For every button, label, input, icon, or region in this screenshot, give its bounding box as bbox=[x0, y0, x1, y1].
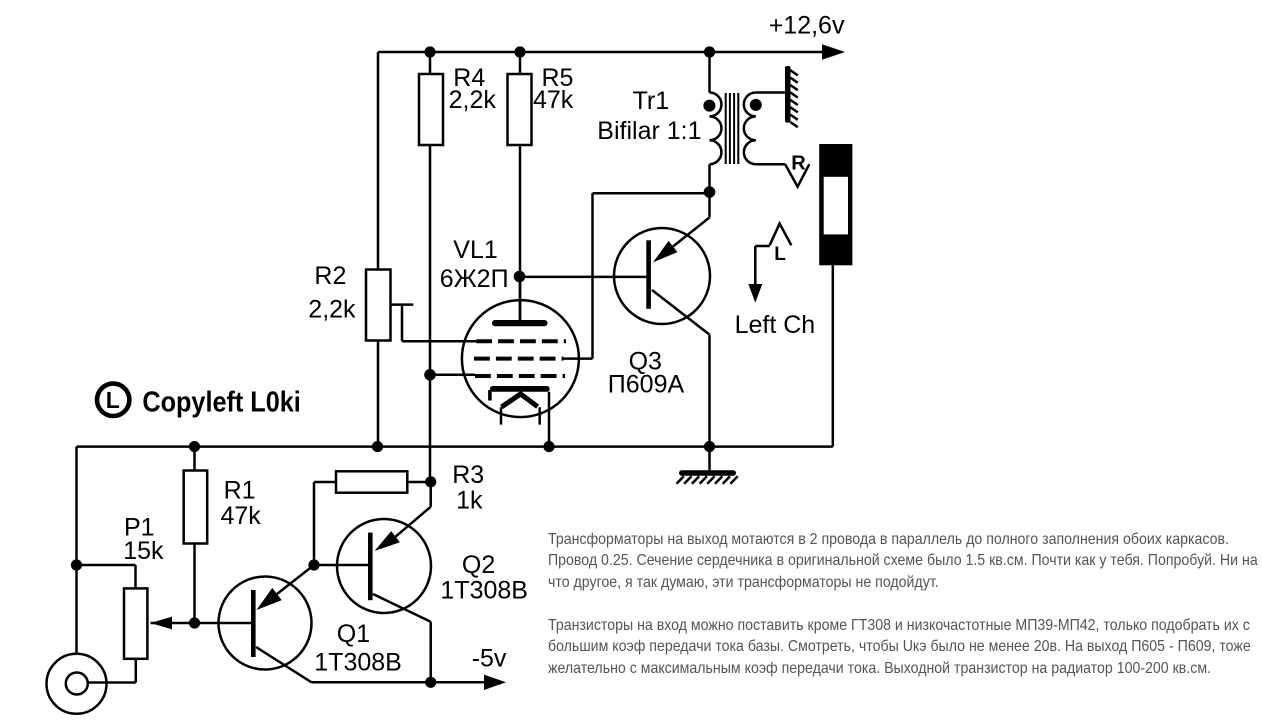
svg-text:Q1: Q1 bbox=[337, 620, 370, 648]
svg-text:L: L bbox=[106, 387, 120, 413]
svg-text:2,2k: 2,2k bbox=[449, 86, 497, 114]
svg-text:47k: 47k bbox=[221, 502, 262, 530]
svg-text:R1: R1 bbox=[224, 477, 256, 505]
svg-text:Bifilar 1:1: Bifilar 1:1 bbox=[597, 117, 701, 145]
svg-text:1Т308В: 1Т308В bbox=[440, 576, 528, 604]
svg-text:+12,6v: +12,6v bbox=[769, 11, 845, 39]
svg-text:VL1: VL1 bbox=[453, 236, 497, 264]
svg-text:1k: 1k bbox=[456, 486, 483, 514]
svg-text:Tr1: Tr1 bbox=[633, 87, 670, 115]
svg-text:Q2: Q2 bbox=[462, 551, 495, 579]
svg-text:R2: R2 bbox=[314, 262, 346, 290]
svg-text:R: R bbox=[791, 153, 806, 175]
svg-text:1Т308В: 1Т308В bbox=[314, 648, 402, 676]
svg-text:П609А: П609А bbox=[608, 370, 685, 398]
svg-text:6Ж2П: 6Ж2П bbox=[440, 265, 509, 293]
svg-text:Left Ch: Left Ch bbox=[735, 311, 816, 339]
svg-text:2,2k: 2,2k bbox=[308, 296, 356, 324]
svg-text:Copyleft L0ki: Copyleft L0ki bbox=[142, 387, 300, 419]
svg-text:R3: R3 bbox=[452, 461, 484, 489]
svg-text:47k: 47k bbox=[533, 86, 574, 114]
svg-text:L: L bbox=[774, 244, 786, 265]
svg-text:15k: 15k bbox=[123, 537, 164, 565]
svg-text:-5v: -5v bbox=[472, 645, 507, 673]
